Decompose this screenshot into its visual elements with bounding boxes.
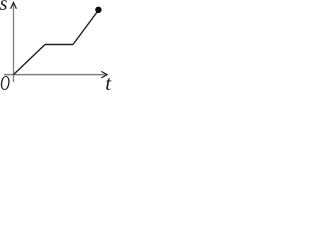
curve segment 3: plateau to endpoint	[73, 12, 98, 45]
svg-text:s: s	[0, 0, 8, 15]
svg-text:O: O	[0, 71, 10, 95]
horizontal axis (t axis)	[4, 74, 106, 76]
curve segment 2: horizontal plateau	[45, 44, 73, 46]
background	[0, 0, 115, 96]
curve segment 1: origin to first bend	[14, 45, 46, 75]
horizontal axis arrowhead	[101, 71, 107, 78]
vertical axis (s axis)	[13, 3, 15, 82]
vertical axis arrowhead	[11, 2, 17, 8]
endpoint dot	[95, 7, 101, 13]
